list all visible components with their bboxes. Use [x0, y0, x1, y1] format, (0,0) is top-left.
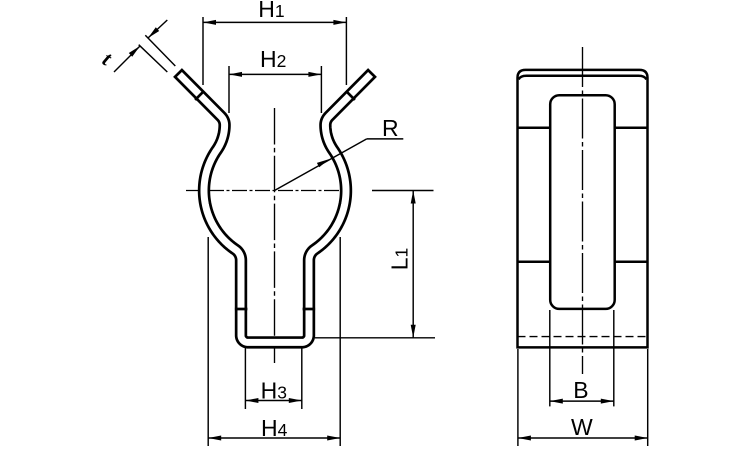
upper fold line right [615, 126, 648, 129]
dimension B line with arrows [550, 400, 614, 402]
svg-text:R: R [382, 115, 399, 141]
svg-text:H1: H1 [258, 0, 284, 22]
side view slot outline [550, 95, 615, 309]
lower fold line right [615, 261, 648, 264]
tick on left arm [195, 91, 204, 100]
svg-text:W: W [571, 414, 593, 440]
dimension H2 extension lines [228, 66, 230, 113]
dimension W line with arrows [518, 437, 648, 439]
tick on left leg [235, 308, 248, 311]
hidden dashed line [518, 336, 648, 338]
wire horizontal centerline of clamp circle [186, 190, 352, 192]
dimension H1 extension lines [202, 17, 204, 85]
dimension t extension lines [145, 35, 175, 66]
dimension H3 line with arrows [245, 400, 301, 402]
dimension H4 line with arrows [208, 437, 340, 439]
tick on right leg [303, 308, 316, 311]
dimension H2 line with arrows [229, 73, 321, 75]
dimension W extension lines [517, 349, 519, 446]
side view outer outline [518, 70, 648, 348]
upper fold line left [518, 126, 551, 129]
dimension L1 extension lines [372, 190, 434, 192]
clip band outline (front view) [178, 73, 373, 343]
dimension H3 extension lines [244, 348, 246, 410]
leader line R [275, 139, 367, 191]
tick on right arm [346, 91, 355, 100]
wire vertical centerline of front view [274, 108, 276, 363]
wire vertical centerline of side view [582, 47, 584, 374]
side view rolled top edge line [519, 76, 647, 80]
dimension B extension lines [549, 310, 551, 406]
svg-text:B: B [573, 377, 588, 403]
dimension t arrows [148, 20, 167, 38]
dimension H4 extension lines [207, 237, 209, 446]
dimension H1 line with arrows [203, 21, 346, 23]
lower fold line left [518, 261, 551, 264]
dimension L1 line with arrows [412, 191, 414, 338]
